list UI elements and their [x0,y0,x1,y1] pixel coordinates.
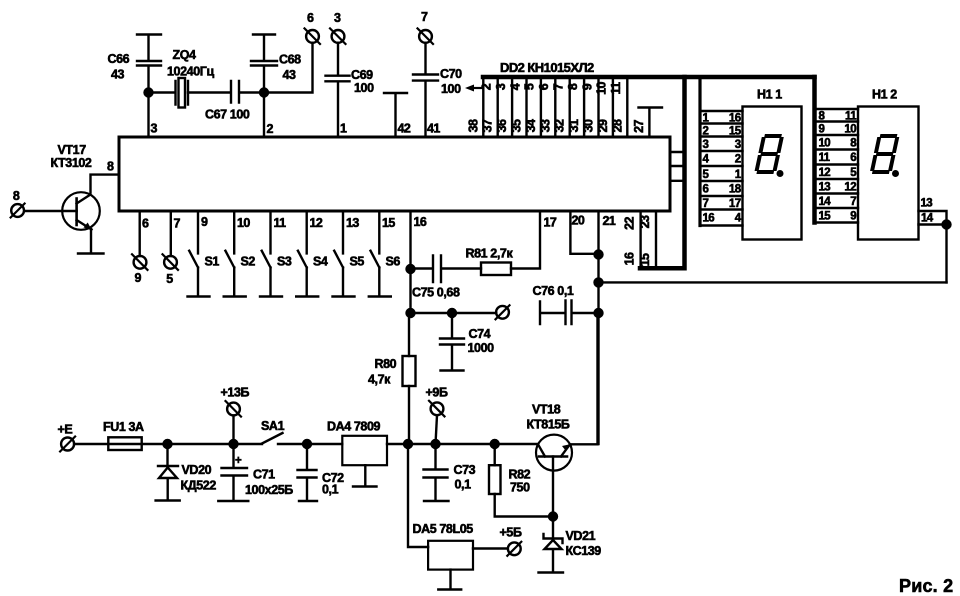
svg-text:35: 35 [510,119,524,132]
capacitor C72 [298,444,318,501]
svg-text:13: 13 [819,181,831,193]
svg-text:9: 9 [201,215,208,229]
svg-text:+5Б: +5Б [500,526,522,540]
diode VD20 [156,444,180,501]
svg-text:6: 6 [703,184,709,196]
transistor VT18 [536,435,572,471]
svg-text:12: 12 [310,216,323,230]
svg-text:36: 36 [495,119,509,132]
wire pin16 node down [409,269,411,313]
capacitor C73 [424,444,449,501]
svg-text:6: 6 [850,152,856,164]
wires IC right edge to bus [670,152,685,181]
switch S6 [369,211,391,297]
svg-text:34: 34 [524,119,538,132]
H1.1 ladder numbers [703,113,742,225]
wire DA4 out rail [387,443,538,445]
capacitor C76 with common bar [540,301,599,325]
svg-text:3: 3 [334,11,341,25]
pin 23 wire [655,211,657,266]
crystal ZQ4 [149,81,189,105]
svg-text:10: 10 [595,82,609,95]
svg-text:Н1 1: Н1 1 [757,88,782,102]
svg-text:100: 100 [354,81,374,95]
capacitor C69 / pin 1 wire [326,43,350,137]
svg-text:+Е: +Е [58,423,73,437]
svg-text:13: 13 [921,198,933,210]
7-seg digit H1.1 [756,136,782,172]
terminal +E [61,438,74,451]
svg-text:12: 12 [844,181,856,193]
svg-text:7: 7 [703,198,709,210]
bus top [483,75,815,80]
capacitor C74 [440,313,464,371]
svg-text:13: 13 [346,216,359,230]
svg-text:6: 6 [142,217,149,231]
terminal (free) [496,306,509,319]
svg-text:5: 5 [523,83,537,90]
terminal 5 [164,256,177,269]
svg-text:10: 10 [237,216,250,230]
svg-text:DA4 7809: DA4 7809 [327,420,381,434]
svg-text:С67 100: С67 100 [205,108,250,122]
svg-text:С66: С66 [108,52,130,66]
arrow marker wire 1 [470,87,481,89]
svg-text:4,7к: 4,7к [368,373,391,387]
capacitor C67 [188,81,264,103]
svg-text:S6: S6 [386,255,401,269]
svg-text:8: 8 [566,83,580,90]
svg-text:16: 16 [414,215,427,229]
svg-text:11: 11 [274,216,287,230]
capacitor C71 [218,444,248,501]
svg-text:27: 27 [632,120,646,133]
svg-text:+13Б: +13Б [221,386,250,400]
terminal +13B [227,403,240,416]
svg-text:38: 38 [466,119,480,132]
svg-text:VD21: VD21 [566,529,596,543]
svg-text:С75 0,68: С75 0,68 [412,286,460,300]
capacitor C75 [411,256,482,283]
svg-text:15: 15 [638,253,652,266]
svg-text:+9Б: +9Б [426,386,448,400]
svg-text:30: 30 [582,119,596,132]
ribbon wire pins 38-28 [483,79,627,137]
svg-text:DD2 КН1015ХЛ2: DD2 КН1015ХЛ2 [500,60,594,75]
svg-text:33: 33 [538,119,552,132]
wire to fuse [74,443,167,445]
svg-text:0,1: 0,1 [322,483,339,497]
wire down to DA5 [408,444,428,547]
wire node C to SA1 node [168,443,263,445]
svg-text:1000: 1000 [468,341,495,355]
pin 17 wire [511,211,540,269]
svg-text:32: 32 [553,119,567,132]
svg-text:7: 7 [174,217,181,231]
svg-text:КД522: КД522 [181,479,217,493]
svg-text:8: 8 [107,160,114,174]
svg-text:5: 5 [166,272,173,286]
svg-text:9: 9 [135,271,142,285]
capacitor C70 / pin 41 wire [413,43,438,137]
wire node2 to terminal 6 [264,43,313,93]
svg-text:DA5 78L05: DA5 78L05 [413,522,474,536]
terminal +9B [431,402,444,415]
terminal 8 [11,204,24,217]
svg-text:6: 6 [537,83,551,90]
wire displays common [599,281,947,283]
svg-text:ZQ4: ZQ4 [173,48,197,62]
zener VD21 [539,517,564,573]
svg-text:2: 2 [267,122,274,136]
pin 21 wire [597,211,599,444]
svg-text:23: 23 [638,215,652,228]
transistor VT17 [62,192,100,230]
switch S2 [224,211,246,297]
svg-text:S4: S4 [313,255,328,269]
svg-text:10: 10 [819,138,831,150]
svg-text:7: 7 [421,10,428,24]
svg-text:С71: С71 [253,468,275,482]
svg-text:R82: R82 [509,468,531,482]
svg-text:37: 37 [481,119,495,132]
svg-text:17: 17 [729,198,741,210]
H1.2 ladder numbers [819,111,858,223]
svg-text:28: 28 [610,119,624,132]
svg-text:2: 2 [735,154,741,166]
svg-text:15: 15 [382,216,395,230]
svg-text:9: 9 [850,210,856,222]
H1.1 ladder rungs [702,111,743,226]
svg-text:16: 16 [703,213,715,225]
svg-text:21: 21 [603,214,616,228]
H1.2 pins 13,14 wires [919,211,947,282]
pin 20 wire [570,211,598,254]
switch S1 [188,211,210,297]
svg-text:100х25Б: 100х25Б [245,483,293,497]
svg-text:11: 11 [819,152,831,164]
svg-text:С70: С70 [440,67,462,81]
terminal +5B [508,542,521,555]
pin 3 wire [147,93,149,138]
pin 2 wire [263,93,265,138]
pin 7 wire [170,211,172,256]
switch S4 [296,211,318,297]
pin 42 wire with common bar [384,93,407,137]
svg-text:КС139: КС139 [566,544,602,558]
svg-text:6: 6 [307,11,314,25]
switch S5 [333,211,355,297]
resistor R81 [481,263,511,276]
svg-text:29: 29 [596,119,610,132]
svg-text:22: 22 [623,217,637,230]
svg-text:VТ17: VТ17 [58,143,87,157]
capacitor C66 [137,35,161,93]
svg-text:КТ3102: КТ3102 [51,156,92,170]
svg-text:КТ815Б: КТ815Б [527,418,570,432]
svg-text:7: 7 [850,196,856,208]
svg-text:11: 11 [609,82,623,95]
svg-text:S3: S3 [277,255,292,269]
svg-text:S5: S5 [350,255,365,269]
svg-text:S2: S2 [241,255,256,269]
svg-text:2: 2 [480,83,494,90]
svg-text:С69: С69 [351,68,373,82]
indicator H1.2 body [858,107,919,240]
svg-text:15: 15 [819,210,832,222]
pin 22 wire [639,211,641,266]
svg-text:С76 0,1: С76 0,1 [533,284,574,298]
pin 6 wire [138,211,140,256]
svg-text:+: + [235,455,242,467]
IC DD2 body [119,137,670,211]
svg-text:16: 16 [729,113,741,125]
wire to DA4 [307,443,342,445]
svg-text:8: 8 [13,189,20,203]
node C junction [164,440,172,448]
svg-text:42: 42 [398,122,411,136]
svg-text:VD20: VD20 [182,463,212,477]
svg-text:7: 7 [552,83,566,90]
svg-text:100: 100 [441,82,461,96]
svg-text:Н1 2: Н1 2 [872,88,897,102]
capacitor C68 [251,35,277,93]
fuse FU1 [108,437,141,450]
svg-text:9: 9 [580,83,594,90]
svg-text:16: 16 [623,252,637,265]
svg-text:18: 18 [729,184,742,196]
pin 27 wire with common bar [639,108,663,138]
terminal 9 [134,256,147,269]
DA5 out wire [473,547,508,549]
svg-text:4: 4 [508,83,522,90]
svg-text:12: 12 [819,167,831,179]
svg-text:С74: С74 [469,327,491,341]
wire to terminal [411,312,497,314]
pin 8 wire [91,175,120,193]
node D junction [303,440,311,448]
terminal 3 [332,30,345,43]
svg-text:FU1 3А: FU1 3А [103,420,144,434]
svg-text:750: 750 [510,481,530,495]
switch SA1 [262,433,307,444]
svg-text:3: 3 [703,139,709,151]
svg-text:SA1: SA1 [261,419,285,433]
VT17 emitter common bar [78,252,104,254]
svg-text:14: 14 [921,213,934,225]
svg-text:2: 2 [703,125,709,137]
svg-text:10240Гц: 10240Гц [167,65,214,79]
svg-text:3: 3 [494,83,508,90]
svg-text:0,1: 0,1 [455,478,472,492]
resistor R80 [408,313,410,356]
svg-text:14: 14 [819,196,832,208]
svg-text:R80: R80 [375,357,397,371]
pin 16 wire [409,211,411,269]
bus vertical to elbow [640,77,685,268]
svg-text:17: 17 [544,216,557,230]
svg-text:41: 41 [427,122,440,136]
svg-text:43: 43 [111,68,125,82]
terminal 6 [306,30,319,43]
indicator H1.1 body [743,107,802,240]
svg-text:Рис. 2: Рис. 2 [899,576,953,596]
DA5 ground [438,570,461,590]
regulator DA5 [428,541,473,570]
svg-text:1: 1 [340,122,347,136]
svg-text:С68: С68 [279,53,301,67]
svg-text:R81 2,7к: R81 2,7к [466,247,514,261]
svg-text:С73: С73 [454,463,476,477]
svg-text:S1: S1 [205,255,220,269]
svg-text:VТ18: VТ18 [532,403,561,417]
bus vertical H1.1 rail [698,77,701,226]
regulator DA4 [342,436,387,465]
svg-text:31: 31 [567,119,581,132]
bus vertical H1.2 rail [812,77,817,223]
terminal 7 [419,30,432,43]
switch S3 [260,211,282,297]
node B junction [260,89,268,97]
svg-text:15: 15 [729,125,742,137]
svg-text:3: 3 [735,139,741,151]
svg-text:10: 10 [844,124,856,136]
DA4 ground [353,465,377,486]
7-seg digit H1.2 [872,136,898,172]
svg-text:20: 20 [572,214,585,228]
node A junction [145,89,153,97]
svg-text:11: 11 [845,111,857,123]
H1.2 ladder rungs [817,109,859,223]
svg-text:3: 3 [151,122,158,136]
svg-text:43: 43 [283,68,297,82]
resistor R82 [494,444,496,465]
svg-text:9: 9 [819,124,825,136]
